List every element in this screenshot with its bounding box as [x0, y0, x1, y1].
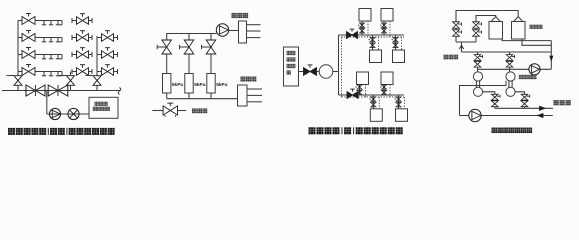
riser with up arrow [459, 42, 463, 52]
service pipes + balance valves b4 [392, 35, 402, 50]
building 6 [381, 72, 393, 85]
balance valve R2 [180, 40, 194, 74]
valve (circle-X) [68, 108, 79, 119]
valve VB2 [97, 31, 118, 42]
building 1 [359, 9, 371, 22]
chilled return link [460, 81, 507, 116]
valve stack S1 [453, 22, 462, 42]
label 热水区 [232, 13, 249, 18]
load radiator L1 [163, 74, 171, 99]
balance valve R3 [202, 40, 216, 74]
top supply main [339, 34, 405, 36]
label 分水区 [241, 77, 257, 82]
legend balance valve symbol [152, 103, 186, 117]
service pipes + balance valves b7 [369, 95, 379, 109]
drop pipe to boiler loop [46, 91, 48, 115]
riser node [96, 36, 98, 75]
bottom supply main [339, 94, 405, 96]
tower 2 outlet pipe [522, 39, 551, 45]
caption: district heating/cooling network balance [309, 127, 403, 134]
caption: parallel units balance [492, 128, 533, 134]
svg-text:5kPa: 5kPa [194, 82, 206, 88]
valve VB3 [97, 48, 118, 59]
return pipe [47, 113, 89, 115]
balance valve B1 [18, 14, 37, 25]
heat source box [284, 47, 299, 86]
pump P5 [460, 109, 482, 121]
tower header pipe A [456, 11, 518, 22]
fan coil FC2 [37, 38, 62, 42]
shut-off valve (vertical) [59, 74, 75, 91]
label 平衡阀 [192, 108, 207, 113]
supply header [167, 34, 217, 41]
U-bottom pipe [456, 41, 476, 43]
load radiator L2 [185, 74, 193, 99]
valve VA4 [72, 65, 92, 76]
return riser (dashed) [341, 37, 343, 97]
pump P4 [529, 64, 540, 75]
boiler/chiller box [89, 97, 118, 118]
top return main (dashed) [342, 36, 405, 38]
pipe break mark [118, 88, 121, 95]
balance valve B3 [18, 48, 37, 59]
extra drop for right column [70, 72, 72, 76]
fan coil FC3 [37, 55, 62, 59]
cooling tower 1 [489, 17, 503, 40]
pump P3 [319, 65, 338, 79]
svg-text:5kPa: 5kPa [216, 82, 228, 88]
label 冷却水 [444, 55, 459, 60]
balance valve B2 [18, 31, 37, 42]
building 3 [370, 50, 382, 63]
valve VB4 [97, 65, 118, 76]
service pipes + balance valves b8 [395, 95, 405, 109]
chiller 1 [473, 72, 482, 97]
balance valve R1 [157, 40, 171, 74]
chilled water return line F [481, 113, 553, 117]
label 冷却塔 [530, 25, 543, 29]
balance valve B4 [18, 65, 37, 76]
tower 1 outlet pipe [502, 39, 551, 41]
condenser return line C [462, 51, 552, 53]
bottom return main (dashed) [342, 96, 405, 98]
main supply pipe [2, 90, 120, 92]
valve VA2 [72, 31, 92, 42]
building 2 [381, 9, 393, 22]
pump P1 [49, 108, 60, 119]
valve VA3 [72, 48, 92, 59]
condenser feed line D [478, 68, 552, 70]
label 冷冻水 (supply) [554, 100, 571, 105]
service pipes + balance valves b3 [369, 35, 379, 50]
pump P2 [216, 24, 238, 36]
valve on bottom main [347, 89, 358, 98]
gate valve V2 [48, 85, 68, 96]
valve on top main [347, 29, 358, 38]
chiller 2 [506, 72, 515, 97]
service pipes + balance valves b2 [380, 21, 390, 37]
valve at source [299, 65, 320, 75]
building 7 [370, 109, 382, 122]
supply riser [338, 35, 340, 95]
downcomer with flow arrow [550, 41, 553, 70]
supply riser [17, 21, 19, 76]
building 5 [357, 72, 369, 85]
fan coil FC1 [37, 21, 62, 25]
svg-text:5kPa: 5kPa [172, 82, 184, 88]
evaporator outlet 2 [515, 92, 530, 109]
shut-off valve (vertical) [7, 74, 23, 91]
cooling tower 2 [512, 17, 526, 40]
valve stack S2 [473, 22, 482, 42]
condenser valve stack M1 [474, 52, 482, 72]
building 8 [396, 109, 408, 122]
return header [167, 98, 238, 100]
return manifold box [238, 85, 263, 106]
tower header pipe B [476, 16, 496, 22]
condenser valve stack M2 [506, 52, 514, 72]
evaporator outlet pipes with valve stack [483, 92, 500, 109]
fan coil FC4 [37, 72, 62, 76]
chilled water supply line E [495, 106, 553, 110]
load radiator L3 [207, 74, 215, 99]
service pipes + balance valves b1 [358, 21, 368, 37]
caption: building HVAC network balance [8, 128, 115, 135]
gate valve V1 [26, 85, 45, 96]
valve VA1 [72, 14, 92, 25]
shut-off valve (vertical) [86, 74, 102, 91]
service pipes + balance valves b6 [380, 85, 390, 98]
label 冷水机组 [519, 75, 537, 79]
supply manifold box [239, 21, 261, 43]
service pipes + balance valves b5 [356, 85, 366, 98]
building 4 [393, 50, 405, 63]
